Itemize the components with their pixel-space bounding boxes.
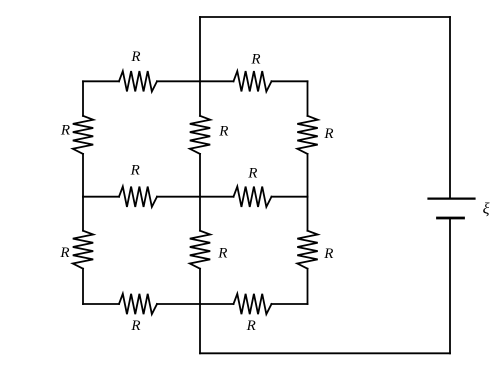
- wire top row: left node to resistor: [83, 80, 119, 82]
- resistor R right-column lower vertical: [297, 231, 317, 269]
- resistor R bottom-left horizontal: [119, 294, 157, 314]
- svg-text:ξ: ξ: [483, 201, 490, 218]
- svg-text:R: R: [60, 123, 70, 139]
- svg-text:R: R: [130, 318, 140, 334]
- svg-text:R: R: [246, 318, 256, 334]
- svg-text:R: R: [323, 246, 333, 262]
- svg-text:R: R: [218, 123, 228, 139]
- wire right column: top node down to resistor: [307, 81, 309, 116]
- resistor R middle-left horizontal: [119, 187, 157, 207]
- svg-text:R: R: [130, 163, 140, 179]
- wire bottom row: resistor to right node: [272, 303, 308, 305]
- wire right column: resistor to bottom node: [307, 269, 309, 304]
- svg-text:R: R: [59, 245, 69, 261]
- wire left column: resistor to middle node: [82, 154, 84, 197]
- wire bottom row: left node to resistor: [83, 303, 119, 305]
- svg-text:R: R: [247, 165, 257, 181]
- wire right side: down from top rail to battery positive plate: [449, 17, 451, 199]
- wire middle row: resistor to right node: [272, 196, 308, 198]
- wire left column: resistor to bottom node: [82, 269, 84, 304]
- svg-text:R: R: [217, 245, 227, 261]
- wire bottom row: between resistors across bottom-middle node: [157, 303, 234, 305]
- resistor R bottom-right horizontal: [234, 294, 272, 314]
- resistor R right-column upper vertical: [297, 116, 317, 154]
- battery negative plate (short): [438, 217, 464, 220]
- wire right side: battery negative plate down to bottom rail: [449, 218, 451, 353]
- resistor R top-right horizontal: [234, 71, 272, 91]
- wire top row: between resistors across top-middle node: [157, 80, 234, 82]
- wire right column: resistor to middle node: [307, 154, 309, 197]
- resistor R middle-column lower vertical: [190, 231, 210, 269]
- resistor R left-column lower vertical: [73, 231, 93, 269]
- wire right column: middle node down to lower resistor: [307, 197, 309, 231]
- resistor R middle-column upper vertical: [190, 116, 210, 154]
- resistor R middle-right horizontal: [234, 187, 272, 207]
- svg-text:R: R: [130, 49, 140, 65]
- wire middle column: resistor through bottom node down to bottom rail: [199, 269, 201, 354]
- wire middle column: resistor through center node to lower resistor: [199, 154, 201, 231]
- resistor R left-column upper vertical: [73, 116, 93, 154]
- battery positive plate (long): [429, 198, 475, 200]
- svg-text:R: R: [323, 126, 333, 142]
- wire top rail: from top-middle junction to upper-right corner: [200, 16, 450, 18]
- resistor R top-left horizontal: [119, 71, 157, 91]
- svg-text:R: R: [250, 51, 260, 67]
- wire left column: top node down to resistor: [82, 81, 84, 116]
- wire middle row: between resistors across center node: [157, 196, 234, 198]
- wire middle column: from top rail down through top node to upper resistor: [199, 17, 201, 116]
- wire left column: middle node down to lower resistor: [82, 197, 84, 231]
- wire top row: resistor to right node: [272, 80, 308, 82]
- wire middle row: left node to resistor: [83, 196, 119, 198]
- wire bottom rail: lower-right corner to bottom-middle junction: [200, 352, 450, 354]
